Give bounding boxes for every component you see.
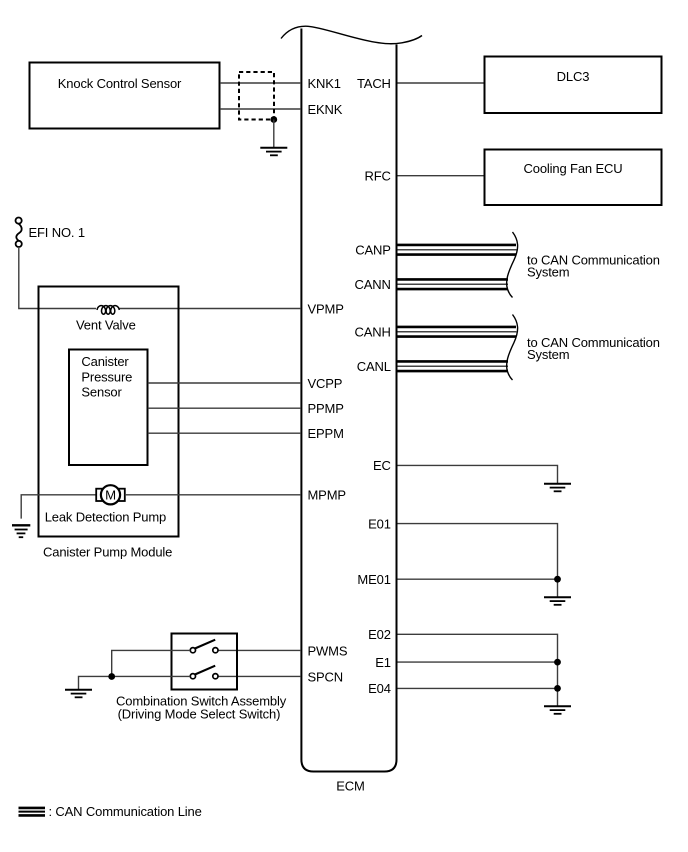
svg-text:ME01: ME01 <box>357 572 390 587</box>
wire CANP CAN bundle <box>398 245 517 255</box>
svg-text:E04: E04 <box>368 681 391 696</box>
wire CANN CAN bundle <box>398 279 509 289</box>
svg-text:EPPM: EPPM <box>308 426 344 441</box>
wire shield to ground <box>273 120 275 148</box>
ECM U1 body outline <box>281 26 422 771</box>
svg-text:VPMP: VPMP <box>308 301 344 316</box>
svg-text:Sensor: Sensor <box>81 385 122 400</box>
svg-text:E1: E1 <box>375 655 391 670</box>
Knock Control Sensor box <box>30 63 220 129</box>
wire E04 <box>398 687 558 689</box>
motor M1 leak detection pump <box>96 485 125 504</box>
svg-text:Canister: Canister <box>81 354 129 369</box>
wire SPCN right <box>218 675 301 677</box>
node SPCN junction <box>108 673 115 680</box>
switch S1 PWMS <box>190 640 218 653</box>
svg-text:Pressure: Pressure <box>81 369 132 384</box>
svg-text:Knock Control Sensor: Knock Control Sensor <box>58 76 182 91</box>
wire SPCN left <box>79 676 191 689</box>
svg-text:PWMS: PWMS <box>308 643 348 658</box>
wire RFC <box>398 175 485 177</box>
legend CAN communication line symbol <box>19 808 46 816</box>
Cooling Fan ECU box <box>485 150 662 206</box>
wire EC <box>398 465 558 483</box>
svg-text:DLC3: DLC3 <box>557 69 590 84</box>
ground E02 G5 <box>544 706 571 714</box>
CAN brace lower <box>507 315 518 381</box>
wire EKNK <box>220 108 301 110</box>
ground leak pump G2 <box>12 525 30 537</box>
fuse EFI NO. 1 <box>16 218 22 247</box>
switch box combination switch assembly <box>172 634 238 690</box>
svg-text:SPCN: SPCN <box>308 669 344 684</box>
wire MPMP left segment <box>21 495 96 519</box>
wire PWMS left <box>112 650 191 676</box>
svg-text:CANN: CANN <box>355 277 391 292</box>
svg-text:(Driving Mode Select Switch): (Driving Mode Select Switch) <box>118 706 281 721</box>
svg-text:CANH: CANH <box>355 324 391 339</box>
wire ME01 <box>398 578 558 580</box>
svg-text:System: System <box>527 265 569 280</box>
CAN brace upper <box>507 232 518 298</box>
Canister Pump Module box <box>39 287 179 537</box>
svg-text:MPMP: MPMP <box>308 488 346 503</box>
svg-text:Cooling Fan ECU: Cooling Fan ECU <box>524 161 623 176</box>
node E04 junction <box>554 685 561 692</box>
wire E02 <box>398 634 558 705</box>
switch S2 SPCN <box>190 666 218 679</box>
svg-text:E02: E02 <box>368 627 391 642</box>
shield dotted box <box>239 72 274 120</box>
svg-text:TACH: TACH <box>357 76 391 91</box>
svg-text:Canister Pump Module: Canister Pump Module <box>43 545 172 560</box>
wire MPMP <box>125 494 301 496</box>
svg-text:KNK1: KNK1 <box>308 76 341 91</box>
wire KNK1 <box>220 82 301 84</box>
svg-text:System: System <box>527 347 569 362</box>
DLC3 box <box>485 57 662 114</box>
svg-text:EFI NO. 1: EFI NO. 1 <box>29 225 85 240</box>
svg-text:PPMP: PPMP <box>308 401 344 416</box>
node shield junction <box>270 116 277 123</box>
wire EPPM <box>148 432 301 434</box>
inductor vent valve <box>96 303 119 314</box>
wire PPMP <box>148 407 301 409</box>
wire CANL CAN bundle <box>398 361 509 371</box>
node E1 junction <box>554 659 561 666</box>
svg-text:Vent Valve: Vent Valve <box>76 318 136 333</box>
wire CANH CAN bundle <box>398 327 517 337</box>
svg-text:VCPP: VCPP <box>308 376 343 391</box>
ground ME01 G4 <box>544 597 571 605</box>
wire fuse to VPMP <box>19 247 301 309</box>
svg-text:CANP: CANP <box>355 242 391 257</box>
svg-text:ECM: ECM <box>336 779 364 794</box>
svg-text:E01: E01 <box>368 516 391 531</box>
svg-text:RFC: RFC <box>365 169 391 184</box>
wire VCPP <box>148 382 301 384</box>
wire E01 <box>398 524 558 597</box>
ground switch G6 <box>65 690 92 698</box>
ground EC G3 <box>544 484 571 492</box>
svg-text:EKNK: EKNK <box>308 102 343 117</box>
svg-text:: CAN Communication Line: : CAN Communication Line <box>49 804 202 819</box>
svg-text:Leak Detection Pump: Leak Detection Pump <box>45 510 166 525</box>
ground shield G1 <box>260 148 287 156</box>
svg-text:CANL: CANL <box>357 359 391 374</box>
svg-text:M: M <box>105 488 116 503</box>
node ME01 junction <box>554 576 561 583</box>
svg-text:EC: EC <box>373 458 391 473</box>
wire TACH <box>398 82 485 84</box>
wire E1 <box>398 661 558 663</box>
Canister Pressure Sensor box <box>69 350 148 466</box>
wire PWMS right <box>218 649 301 651</box>
